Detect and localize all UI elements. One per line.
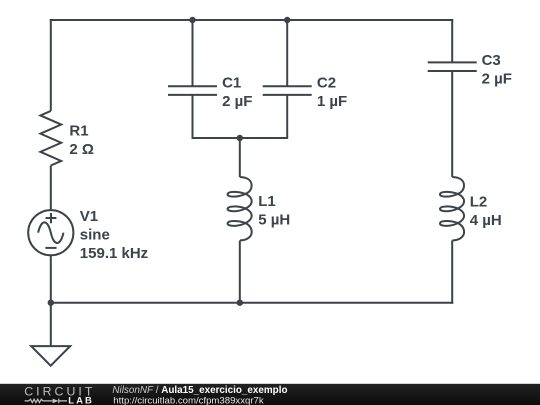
wire: C2 bottom plate to mid junction wire	[286, 95, 288, 139]
wire: C1 bottom plate to mid junction wire	[192, 95, 194, 139]
inductor L1	[228, 177, 252, 240]
capacitor C2 plates	[263, 86, 312, 95]
svg-text:L1: L1	[258, 193, 276, 210]
wire: mid junction down to L1	[239, 138, 241, 177]
svg-text:C3: C3	[482, 52, 501, 69]
ground symbol	[31, 346, 70, 366]
V1 sine wave	[38, 222, 63, 243]
svg-text:R1: R1	[69, 122, 88, 139]
wire: V1 bottom to bottom-left junction	[50, 255, 52, 302]
wire: top bus from left corner to right corner	[50, 19, 453, 21]
wire: C3 bottom plate to L2 top	[451, 71, 453, 177]
wire: L1 bottom to bottom bus junction	[239, 240, 241, 302]
svg-text:L2: L2	[470, 193, 488, 210]
svg-text:1 µF: 1 µF	[317, 93, 347, 110]
svg-text:2 µF: 2 µF	[482, 71, 512, 88]
CircuitLab logo diode symbol	[53, 399, 59, 404]
svg-text:V1: V1	[80, 208, 98, 225]
V1 minus sign	[45, 247, 56, 249]
wire: bottom-left junction down to ground	[50, 303, 52, 346]
node junction dot: bottom bus / V1 / ground	[48, 300, 54, 306]
capacitor C1 plates	[168, 86, 217, 95]
node junction dot: top bus / C2	[284, 17, 290, 23]
wire: top bus to C1 top plate	[192, 20, 194, 86]
CircuitLab logo wire with resistor zigzag	[25, 399, 53, 402]
node junction dot: mid bus / L1 top	[237, 135, 243, 141]
resistor R1	[40, 111, 61, 166]
wire: top bus to C2 top plate	[286, 20, 288, 86]
wire: right rail from top corner down to C3 top plate	[451, 19, 453, 62]
svg-text:C2: C2	[317, 74, 336, 91]
wire: left rail from top-left corner down to R1	[50, 19, 52, 111]
wire: bottom bus	[51, 302, 453, 304]
capacitor C3 plates	[428, 62, 477, 71]
node junction dot: top bus / C1	[189, 17, 195, 23]
inductor L2	[440, 177, 464, 240]
V1 plus sign	[46, 213, 57, 223]
wire: L2 bottom to bottom-right corner	[451, 240, 453, 303]
svg-text:4 µH: 4 µH	[470, 212, 502, 229]
svg-text:2 µF: 2 µF	[222, 93, 252, 110]
svg-text:LAB: LAB	[68, 395, 94, 405]
voltage source V1 circle	[28, 210, 73, 255]
svg-text:C1: C1	[222, 74, 241, 91]
svg-text:5 µH: 5 µH	[258, 211, 290, 228]
svg-text:NilsonNF / Aula15_exercicio_ex: NilsonNF / Aula15_exercicio_exemplo	[112, 385, 287, 396]
svg-text:http://circuitlab.com/cfpm389x: http://circuitlab.com/cfpm389xxqr7k	[113, 396, 264, 405]
wire: mid bus joining C1 and C2 bottoms	[193, 137, 288, 139]
node junction dot: bottom bus / L1 bottom	[237, 300, 243, 306]
svg-text:2 Ω: 2 Ω	[69, 141, 94, 158]
svg-text:159.1 kHz: 159.1 kHz	[80, 245, 148, 262]
wire: R1 bottom to V1 top	[50, 166, 52, 211]
svg-text:sine: sine	[80, 227, 110, 244]
